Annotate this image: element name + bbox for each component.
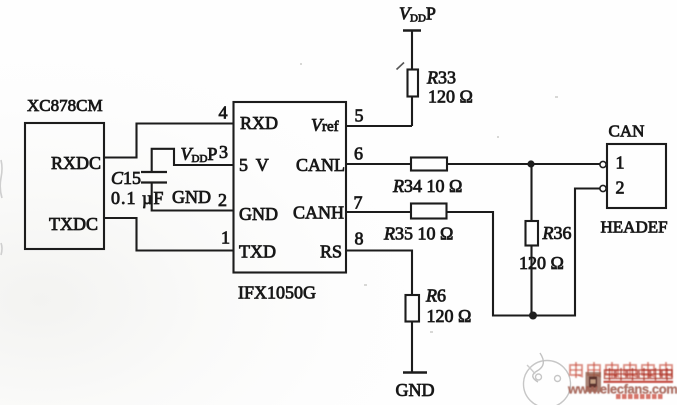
svg-text:1: 1 — [221, 228, 230, 248]
svg-text:CAN: CAN — [609, 122, 645, 141]
svg-text:RXDC: RXDC — [51, 153, 101, 173]
svg-text:VDDP: VDDP — [181, 144, 218, 165]
svg-text:R33: R33 — [426, 68, 456, 88]
svg-text:XC878CM: XC878CM — [27, 96, 103, 115]
svg-text:8: 8 — [355, 229, 364, 249]
svg-text:1: 1 — [616, 153, 625, 173]
svg-text:R35 10 Ω: R35 10 Ω — [383, 224, 453, 244]
svg-text:7: 7 — [354, 193, 363, 213]
svg-text:RXD: RXD — [240, 113, 278, 133]
svg-text:CANL: CANL — [296, 155, 345, 175]
svg-text:4: 4 — [219, 103, 228, 123]
svg-text:TXD: TXD — [239, 242, 276, 262]
svg-text:Vref: Vref — [311, 115, 339, 135]
svg-text:TXDC: TXDC — [49, 214, 98, 234]
svg-text:CANH: CANH — [293, 203, 344, 223]
svg-text:R34 10 Ω: R34 10 Ω — [392, 176, 462, 196]
svg-text:C15: C15 — [111, 168, 141, 188]
svg-text:2: 2 — [218, 190, 227, 210]
svg-text:6: 6 — [354, 144, 363, 164]
svg-text:RS: RS — [320, 242, 342, 262]
svg-text:GND: GND — [172, 187, 211, 207]
svg-text:VDDP: VDDP — [399, 4, 436, 25]
svg-text:5: 5 — [355, 106, 364, 126]
svg-text:GND: GND — [239, 204, 278, 224]
svg-text:120 Ω: 120 Ω — [519, 253, 564, 273]
svg-text:3: 3 — [219, 142, 228, 162]
svg-text:5 V: 5 V — [239, 155, 271, 175]
svg-text:HEADEF: HEADEF — [601, 218, 668, 237]
svg-text:0.1 µF: 0.1 µF — [111, 188, 164, 208]
svg-text:2: 2 — [616, 178, 625, 198]
svg-text:R36: R36 — [542, 223, 572, 243]
svg-text:R6: R6 — [425, 286, 446, 306]
svg-text:GND: GND — [396, 380, 435, 400]
svg-text:120 Ω: 120 Ω — [428, 87, 473, 107]
svg-text:IFX1050G: IFX1050G — [238, 283, 316, 303]
svg-text:120 Ω: 120 Ω — [427, 306, 472, 326]
